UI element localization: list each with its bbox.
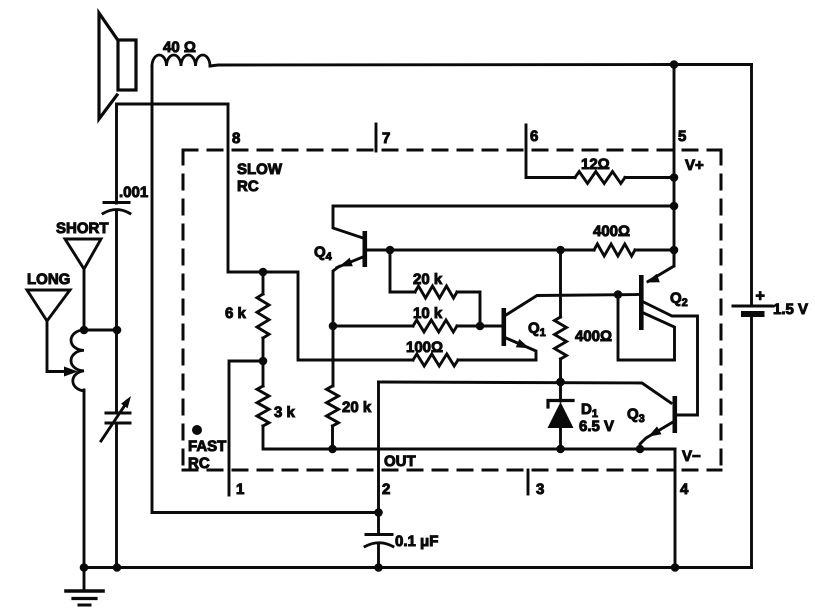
svg-text:40 Ω: 40 Ω [163, 39, 196, 56]
svg-text:OUT: OUT [384, 453, 416, 470]
wire 20k-vert bottom stub [331, 426, 334, 449]
svg-text:100Ω: 100Ω [406, 339, 443, 356]
wire 6k top stub [262, 272, 265, 294]
wire pin5 rail down [673, 65, 676, 267]
pin 7 stub [375, 124, 378, 151]
wire right outer down to battery + [750, 65, 753, 307]
wire SHORT antenna down [83, 269, 86, 330]
node Q2 base junction [614, 290, 623, 299]
resistor R3 20k [415, 286, 457, 298]
capacitor C1 .001 bottom plate [103, 210, 130, 214]
IC dashed outline right edge [720, 150, 723, 470]
variable capacitor C2 arrow [101, 402, 127, 441]
wire C2 down to bottom rail [115, 423, 118, 568]
svg-text:400Ω: 400Ω [593, 223, 630, 240]
svg-text:0.1 μF: 0.1 μF [395, 533, 438, 550]
wire 20k branch down from base node [389, 250, 392, 292]
node 12-ohm junction [670, 173, 679, 182]
resistor R1 6k [257, 294, 269, 338]
wire across to pin 2 node [152, 511, 379, 514]
transistor Q4 collector [333, 206, 674, 238]
svg-text:6 k: 6 k [225, 305, 247, 322]
transistor Q4 emitter [337, 257, 364, 268]
wire top (L1 right end to battery +) [210, 65, 752, 67]
ground symbol [66, 589, 103, 593]
svg-text:4: 4 [680, 481, 689, 498]
node pin2 0.1uF junction [374, 508, 383, 517]
inductor L1 40-ohm voice coil [152, 55, 210, 66]
svg-text:6: 6 [530, 128, 538, 145]
svg-text:SHORT: SHORT [56, 220, 109, 237]
zener diode D1 cathode bar [548, 401, 573, 408]
node Q4 collector rail at pin5 [670, 202, 679, 211]
wire Q4 emitter chain down [332, 326, 335, 386]
battery B1 minus plate [744, 311, 762, 317]
wire 6k bottom stub [262, 338, 265, 361]
speaker LS1 (cone) [99, 13, 117, 119]
transistor Q2 collector 2 loop [618, 295, 675, 361]
svg-text:1: 1 [236, 481, 244, 498]
ground stub [83, 568, 86, 592]
svg-text:Q1: Q1 [528, 320, 546, 339]
node tank right junction [113, 326, 122, 335]
wire pin 2 down [377, 382, 380, 534]
IC dashed outline bottom edge [183, 469, 721, 472]
node Q4 base junction [386, 246, 395, 255]
wire pin 1 run [229, 361, 263, 495]
zener diode D1 body [548, 402, 574, 428]
pin 3 stub [527, 470, 530, 494]
node pin 4 bottom junction [671, 563, 680, 572]
inductor L2 antenna coil [71, 330, 84, 391]
svg-text:FAST: FAST [188, 438, 226, 455]
transistor Q1 emitter [506, 338, 536, 360]
svg-text:12Ω: 12Ω [581, 156, 610, 173]
svg-text:RC: RC [188, 455, 210, 472]
wire Q4 emitter down [333, 267, 339, 327]
tap arrowhead into coil L2 [64, 367, 78, 377]
node FAST RC dot [192, 425, 202, 435]
capacitor C3 0.1uF top plate [366, 533, 392, 536]
svg-text:10 k: 10 k [413, 305, 443, 322]
resistor R2 3k [257, 386, 269, 426]
svg-text:.001: .001 [119, 184, 148, 201]
antenna LONG symbol [27, 290, 70, 321]
wire LONG antenna down and right to tap [47, 321, 64, 372]
svg-text:V−: V− [682, 448, 701, 465]
wire C1 up to corner and over to pin 8 [117, 104, 229, 203]
node Q3 emitter junction [636, 445, 645, 454]
wire 3k top stub [262, 361, 265, 386]
resistor R6 20k vertical [327, 386, 339, 426]
battery B1 1.5V plus plate [733, 305, 772, 308]
wire pin 4 down to bottom rail [674, 449, 677, 568]
node bottom-left ground junction [80, 563, 89, 572]
transistor Q3 bar [673, 396, 678, 433]
svg-text:3 k: 3 k [274, 404, 296, 421]
resistor R7 400-ohm bias [594, 244, 635, 256]
transistor Q1 collector [506, 295, 638, 316]
node D1 top junction [556, 378, 565, 387]
transistor Q3 emitter [640, 422, 673, 449]
wire coil bottom down to ground rail [83, 390, 86, 568]
wire Q4 base to bias rail [367, 249, 561, 252]
svg-text:RC: RC [237, 178, 259, 195]
svg-text:Q4: Q4 [314, 244, 333, 263]
svg-text:Q2: Q2 [670, 290, 688, 309]
node Q4 emitter / 10k junction [329, 322, 338, 331]
node tank left junction [80, 326, 89, 335]
capacitor C1 .001 top plate [104, 201, 129, 204]
svg-text:V+: V+ [685, 157, 704, 174]
transistor Q4 bar [363, 231, 368, 267]
transistor Q1 bar [502, 308, 507, 346]
resistor R9 12-ohm [575, 172, 625, 184]
transistor Q2 collector 1 [644, 302, 698, 415]
speaker LS1 (driver body) [118, 40, 136, 90]
svg-text:5: 5 [678, 128, 686, 145]
capacitor C3 0.1uF bottom plate [365, 543, 393, 547]
node 6k/3k/pin1 junction [259, 357, 268, 366]
wire bias node down [559, 250, 562, 317]
IC dashed outline left edge [182, 150, 185, 470]
svg-text:400Ω: 400Ω [575, 328, 612, 345]
svg-text:6.5 V: 6.5 V [579, 418, 614, 435]
wire pin 8 into IC [228, 104, 413, 360]
svg-text:Q3: Q3 [627, 406, 645, 425]
wire D1 bottom stub [559, 428, 562, 449]
wire tank junction down to C2 [115, 330, 118, 413]
resistor R5 100-ohm [413, 354, 458, 366]
svg-text:2: 2 [382, 481, 390, 498]
svg-text:8: 8 [232, 130, 240, 147]
wire D1 top stub [559, 382, 562, 401]
node base rail junction [556, 378, 565, 387]
resistor R8 400-ohm vertical [555, 317, 567, 359]
transistor Q2 bar [639, 275, 644, 330]
svg-text:20 k: 20 k [413, 271, 443, 288]
antenna SHORT symbol [65, 239, 101, 269]
svg-text:1.5 V: 1.5 V [773, 301, 808, 318]
resistor R4 10k [413, 320, 457, 332]
node D1 bottom junction [556, 445, 565, 454]
node bottom variable-cap junction [113, 563, 122, 572]
wire C1 bottom down to tank [115, 212, 118, 330]
svg-text:20 k: 20 k [342, 399, 372, 416]
node 6k top junction [259, 268, 268, 277]
svg-text:SLOW: SLOW [237, 161, 283, 178]
wire 3k bottom to V- rail [263, 426, 675, 449]
svg-text:+: + [756, 288, 765, 305]
node R7 right junction at pin5 line [670, 246, 679, 255]
node top-right at pin5 line [670, 60, 679, 69]
svg-text:7: 7 [382, 130, 390, 147]
variable capacitor C2 plates [106, 412, 130, 415]
wire bottom ground rail [84, 566, 752, 569]
wire tank top [84, 329, 117, 332]
IC LM3909 dashed outline top edge [183, 149, 721, 152]
wire R8 bottom stub [559, 359, 562, 382]
transistor Q2 emitter [648, 250, 674, 282]
svg-text:3: 3 [536, 481, 544, 498]
svg-text:LONG: LONG [27, 271, 70, 288]
node C3 bottom junction [374, 563, 383, 572]
wire battery - down to bottom rail [750, 314, 753, 568]
wire L1 left terminal down [151, 66, 154, 513]
wire Q3 base rail [379, 382, 672, 403]
node R7 left junction [556, 246, 565, 255]
wire pin 6 into IC [526, 125, 575, 178]
wire C3 bottom stub [377, 545, 380, 568]
node 20k/10k/Q1-base junction [476, 322, 485, 331]
node 20k-vert bottom junction [328, 445, 337, 454]
